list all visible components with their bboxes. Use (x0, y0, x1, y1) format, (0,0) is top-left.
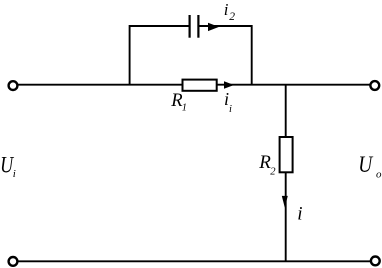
wire R2 branch upper (285, 85, 287, 137)
terminal input top-left (9, 81, 18, 90)
wire capacitor branch right (199, 26, 251, 85)
svg-text:U: U (358, 151, 373, 177)
label R1 (170, 90, 187, 114)
resistor R1 (183, 80, 217, 91)
svg-text:o: o (376, 168, 382, 180)
svg-text:R: R (258, 152, 271, 173)
arrow current i2 (208, 23, 219, 31)
svg-text:2: 2 (270, 166, 276, 177)
svg-text:2: 2 (229, 11, 235, 23)
wire main top left segment (18, 84, 182, 86)
wire bottom (18, 260, 371, 262)
terminal output top-right (370, 81, 379, 90)
resistor R2 (280, 137, 293, 172)
wire main top right segment (218, 84, 371, 86)
terminal input bottom-left (9, 257, 18, 266)
arrow current i (282, 196, 288, 208)
svg-text:1: 1 (182, 103, 187, 114)
label Ui (0, 152, 16, 180)
label R2 (258, 152, 276, 177)
capacitor C (190, 15, 199, 38)
wire capacitor branch left (130, 26, 189, 85)
label i2 (224, 0, 236, 23)
svg-text:i: i (297, 203, 302, 224)
wire R2 branch lower (285, 172, 287, 261)
svg-text:i: i (229, 104, 232, 115)
terminal output bottom-right (371, 257, 380, 266)
arrow current ii (224, 81, 234, 88)
svg-text:i: i (224, 0, 229, 19)
svg-text:i: i (13, 168, 16, 180)
label Uo (358, 151, 382, 180)
label ii (224, 89, 232, 115)
